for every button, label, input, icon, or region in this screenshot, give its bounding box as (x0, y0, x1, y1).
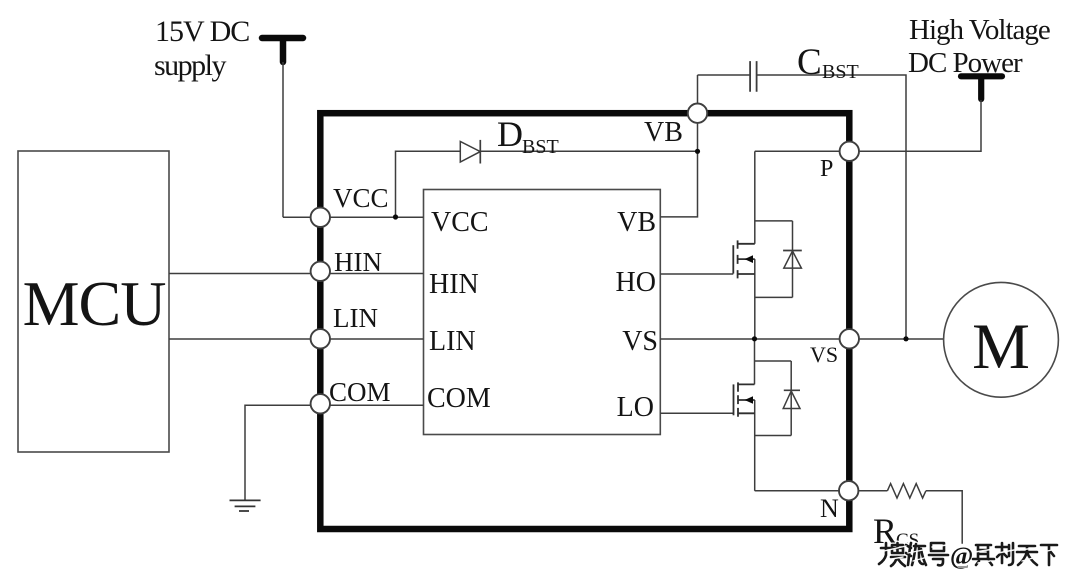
svg-text:P: P (820, 156, 833, 182)
wire HIN row (169, 273, 424, 275)
node VCC terminal circle (311, 208, 330, 227)
HV power bar symbol (961, 73, 1002, 79)
wire Q2 diode vertical (790, 361, 792, 436)
wire Q2 drain (754, 339, 756, 384)
diode DBST (460, 142, 480, 163)
node VS terminal circle (840, 329, 859, 348)
wire Q2 source vertical (754, 400, 756, 491)
svg-text:supply: supply (154, 49, 227, 82)
body diode D1 (783, 250, 802, 252)
wire high-side drain (754, 151, 756, 244)
svg-text:15V DC: 15V DC (155, 15, 249, 48)
ground (230, 500, 261, 511)
svg-text:VS: VS (622, 326, 658, 357)
svg-text:M: M (972, 311, 1030, 383)
svg-text:VB: VB (617, 207, 656, 238)
wire CBST left (698, 74, 751, 76)
gate driver IC U1 box (424, 190, 661, 435)
svg-text:HIN: HIN (334, 247, 382, 277)
wire DBST branch (396, 151, 698, 217)
svg-text:COM: COM (427, 383, 491, 414)
wire Q2 diode branch top (755, 360, 792, 362)
wire HO gate (660, 273, 733, 275)
svg-text:BST: BST (522, 136, 559, 158)
svg-text:N: N (820, 494, 839, 523)
svg-text:COM: COM (329, 377, 391, 407)
wire COM row (245, 405, 424, 500)
motor M1 circle (944, 282, 1059, 397)
wire 15V stem (282, 62, 284, 217)
node HIN terminal circle (311, 262, 330, 281)
wire VCC row (283, 216, 424, 218)
wire Q1 diode vertical (792, 221, 794, 298)
svg-text:LO: LO (617, 392, 654, 423)
wire VS row (660, 338, 943, 340)
wire P row (755, 100, 981, 151)
junction dot VS/CBST (903, 336, 908, 341)
svg-text:HIN: HIN (429, 269, 479, 300)
wire Q1 diode branch top (755, 220, 793, 222)
wire LIN row (169, 338, 424, 340)
node P terminal circle (840, 142, 859, 161)
svg-text:MCU: MCU (23, 268, 166, 339)
svg-text:C: C (797, 42, 822, 83)
node VB terminal circle (688, 104, 707, 123)
wire VB pin (660, 75, 697, 217)
wire Q1 diode branch bottom (755, 296, 793, 298)
capacitor CBST plates (750, 61, 757, 92)
resistor RCS zigzag (887, 484, 926, 498)
transistor Q1 (high-side MOSFET) (733, 240, 755, 278)
15V supply bar symbol (262, 35, 303, 42)
svg-text:High Voltage: High Voltage (909, 14, 1050, 46)
wire Q2 diode branch bottom (755, 435, 792, 437)
svg-text:VS: VS (810, 342, 838, 367)
svg-text:VB: VB (644, 117, 683, 148)
svg-text:VCC: VCC (431, 207, 489, 238)
wire N row (755, 490, 849, 492)
wire CBST right (757, 75, 906, 339)
wire LO gate (660, 412, 733, 414)
body diode D2 (784, 389, 800, 391)
node LIN terminal circle (311, 329, 330, 348)
watermark souhu badge (879, 543, 1057, 570)
MCU box (18, 151, 169, 452)
svg-text:HO: HO (616, 267, 656, 298)
junction dot VCC/DBST (393, 214, 398, 219)
svg-text:D: D (497, 114, 523, 154)
transistor Q2 (low-side MOSFET) (734, 382, 755, 416)
svg-text:LIN: LIN (333, 303, 378, 333)
svg-text:LIN: LIN (429, 326, 476, 357)
node N terminal circle (839, 481, 858, 500)
module boundary (thick rect) (320, 113, 849, 529)
wire N to resistor (849, 490, 888, 492)
wire resistor to down (926, 491, 962, 544)
svg-text:BST: BST (822, 61, 859, 83)
svg-text:VCC: VCC (333, 183, 389, 213)
svg-text:@: @ (950, 543, 973, 570)
node COM terminal circle (311, 394, 330, 413)
junction dot VB/DBST (695, 149, 700, 154)
junction dot VS/Q1 source (752, 336, 757, 341)
wire Q1 source vertical (754, 259, 756, 339)
